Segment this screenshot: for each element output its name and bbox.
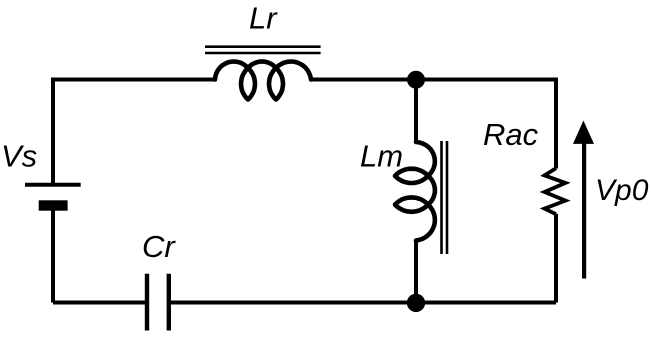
capacitor Cr left plate (145, 274, 149, 331)
arrow Vp0 shaft (582, 143, 586, 279)
inductor Lm core line 1 (440, 141, 443, 254)
arrow Vp0 head (573, 121, 594, 144)
resistor Rac zigzag (545, 168, 566, 214)
inductor Lm core line 2 (446, 141, 449, 254)
wire bottom right segment (169, 301, 556, 305)
node junction dot bottom (407, 294, 425, 312)
wire middle branch top (414, 80, 418, 143)
svg-text:Rac: Rac (483, 117, 539, 152)
capacitor Cr right plate (167, 274, 171, 331)
wire middle branch bottom (414, 241, 418, 303)
wire top-right + right upper (311, 80, 556, 169)
wire bottom left segment (53, 301, 147, 305)
inductor Lr coil (215, 62, 311, 100)
wire top-left loop: left upper + top segment (53, 80, 215, 184)
wire left lower (51, 210, 55, 303)
node junction dot top (407, 71, 425, 89)
voltage source Vs battery bottom plate (39, 200, 68, 210)
voltage source Vs battery top plate (25, 183, 81, 187)
inductor Lr core line 2 (205, 52, 321, 55)
svg-text:Lr: Lr (249, 1, 278, 36)
svg-text:Vp0: Vp0 (595, 174, 649, 207)
svg-text:Vs: Vs (1, 138, 37, 173)
inductor Lm coil (395, 142, 435, 241)
svg-text:Lm: Lm (360, 139, 403, 174)
svg-text:Cr: Cr (142, 229, 176, 264)
wire right lower (554, 214, 558, 303)
inductor Lr core line 1 (205, 45, 321, 48)
